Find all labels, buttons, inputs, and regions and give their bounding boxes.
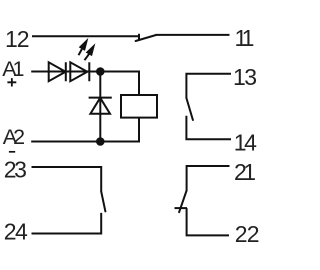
- wire A2 to coil bottom: [31, 118, 139, 142]
- svg-text:14: 14: [234, 129, 257, 155]
- node junction on A2 wire: [96, 137, 105, 146]
- wire 24 with corner up: [32, 213, 102, 234]
- node junction on A1 wire: [96, 67, 105, 76]
- svg-text:24: 24: [4, 218, 28, 244]
- contact blade 13-14 (NO, open): [186, 98, 193, 120]
- suppressor diode V3 across coil: [89, 98, 112, 114]
- svg-text:22: 22: [235, 221, 259, 247]
- svg-text:23: 23: [4, 156, 26, 182]
- wire LED branch down: [99, 72, 101, 142]
- svg-text:12: 12: [5, 26, 29, 52]
- svg-text:A2: A2: [3, 125, 24, 149]
- contact blade 11-12 (shown closed on 12): [136, 35, 156, 41]
- contact blade 21-22 (NC, closed): [179, 191, 187, 213]
- LED arrow 1: [79, 39, 88, 55]
- plus polarity mark: [7, 78, 16, 86]
- minus polarity mark: [9, 151, 15, 153]
- svg-text:21: 21: [234, 159, 255, 185]
- wire A1 to coil top: [31, 72, 139, 96]
- wire 21 with corner down: [187, 166, 230, 191]
- wire 22 with corner up: [187, 208, 229, 235]
- wire 12: [32, 35, 139, 37]
- svg-text:A1: A1: [2, 57, 23, 81]
- relay coil K1: [121, 95, 157, 118]
- wire 23 with corner down: [32, 167, 102, 192]
- fixed contact tick of 21-22: [175, 207, 188, 209]
- fixed contact tick of changeover 11-12: [138, 34, 140, 41]
- wire 13 with corner down: [186, 74, 231, 98]
- wire 11: [156, 34, 230, 36]
- svg-text:13: 13: [233, 64, 256, 90]
- LED arrow 2: [85, 45, 95, 61]
- wire 14 with corner up: [186, 116, 231, 140]
- LED V2: [70, 62, 89, 81]
- diode V1: [49, 62, 66, 81]
- contact blade 23-24 (NO, open): [101, 192, 105, 212]
